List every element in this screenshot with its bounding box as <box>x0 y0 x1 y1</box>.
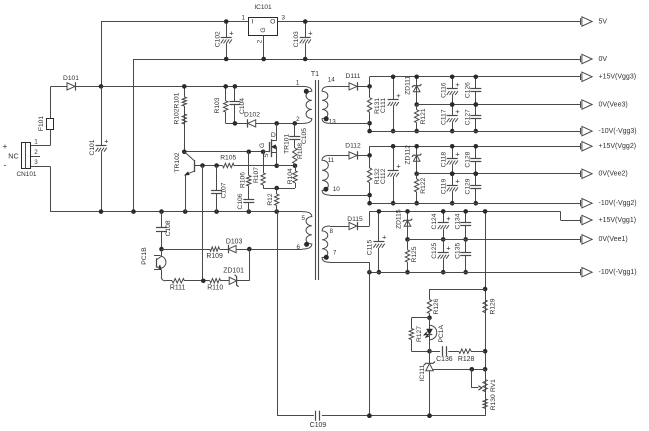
svg-text:5: 5 <box>301 215 305 222</box>
svg-text:0V(Vee2): 0V(Vee2) <box>599 171 628 178</box>
svg-text:+: + <box>396 162 401 171</box>
svg-text:0V(Vee3): 0V(Vee3) <box>599 101 628 108</box>
svg-text:R110: R110 <box>207 285 223 292</box>
svg-text:2: 2 <box>296 116 300 123</box>
svg-text:G: G <box>260 27 267 32</box>
svg-text:G: G <box>259 143 266 148</box>
svg-text:+: + <box>382 233 387 242</box>
svg-text:-10V(-Vgg3): -10V(-Vgg3) <box>599 128 637 135</box>
svg-text:RV1: RV1 <box>490 379 497 392</box>
svg-text:+: + <box>3 142 8 151</box>
svg-text:D103: D103 <box>226 239 243 246</box>
svg-text:5V: 5V <box>599 18 608 25</box>
svg-text:F101: F101 <box>38 116 45 132</box>
svg-text:8: 8 <box>329 228 333 235</box>
svg-text:CN101: CN101 <box>17 171 37 178</box>
svg-text:R125: R125 <box>411 246 418 262</box>
svg-text:+: + <box>455 107 460 116</box>
svg-text:C116: C116 <box>441 82 448 98</box>
svg-text:1: 1 <box>242 15 246 22</box>
svg-text:-10V(-Vgg2): -10V(-Vgg2) <box>599 200 637 207</box>
svg-text:R108: R108 <box>297 143 304 159</box>
svg-text:2: 2 <box>257 39 264 43</box>
svg-text:PC1B: PC1B <box>141 247 148 265</box>
svg-text:+: + <box>308 28 313 37</box>
svg-text:R103: R103 <box>214 97 221 113</box>
svg-text:ZD101: ZD101 <box>223 268 244 275</box>
svg-text:TR102: TR102 <box>174 152 181 172</box>
svg-text:C115: C115 <box>366 239 373 255</box>
svg-text:C119: C119 <box>441 178 448 194</box>
svg-text:R121: R121 <box>420 108 427 124</box>
svg-text:R122: R122 <box>420 177 427 193</box>
svg-text:R104: R104 <box>287 168 294 184</box>
svg-text:10: 10 <box>333 186 341 193</box>
svg-text:C125: C125 <box>431 243 438 259</box>
svg-text:+: + <box>446 214 451 223</box>
svg-text:ZD112: ZD112 <box>405 145 412 165</box>
svg-text:D111: D111 <box>346 73 361 80</box>
svg-text:T1: T1 <box>311 71 319 78</box>
svg-text:C102: C102 <box>214 31 221 47</box>
svg-text:1: 1 <box>296 80 300 87</box>
svg-text:C117: C117 <box>441 109 448 125</box>
svg-text:ZD111: ZD111 <box>405 75 412 94</box>
svg-text:1: 1 <box>34 139 38 146</box>
svg-text:R127: R127 <box>416 326 423 342</box>
svg-text:R12: R12 <box>267 193 274 206</box>
svg-text:0V: 0V <box>599 56 608 63</box>
svg-text:+: + <box>455 80 460 89</box>
svg-text:R128: R128 <box>458 356 475 363</box>
svg-text:C134: C134 <box>455 213 462 229</box>
svg-text:C101: C101 <box>89 139 96 155</box>
svg-text:D101: D101 <box>63 75 79 82</box>
svg-text:C105: C105 <box>301 128 308 144</box>
svg-text:R106: R106 <box>240 172 247 188</box>
svg-text:R111: R111 <box>170 285 186 292</box>
svg-text:3: 3 <box>281 15 285 22</box>
svg-text:+: + <box>455 149 460 158</box>
svg-text:+: + <box>104 137 109 146</box>
svg-text:11: 11 <box>328 157 335 164</box>
svg-text:+: + <box>229 28 234 37</box>
svg-text:0V(Vee1): 0V(Vee1) <box>599 236 628 243</box>
svg-text:C136: C136 <box>436 356 453 363</box>
svg-text:O: O <box>270 19 275 26</box>
svg-text:2: 2 <box>34 149 38 156</box>
svg-text:3: 3 <box>34 159 38 166</box>
svg-text:R126: R126 <box>433 298 440 314</box>
svg-text:C107: C107 <box>220 182 227 198</box>
svg-text:D102: D102 <box>244 112 260 119</box>
svg-text:D: D <box>271 132 276 139</box>
svg-text:C129: C129 <box>464 178 471 194</box>
svg-text:D115: D115 <box>347 216 363 223</box>
svg-text:+: + <box>446 244 451 253</box>
svg-text:C106: C106 <box>237 193 244 209</box>
svg-text:R105: R105 <box>220 155 236 162</box>
svg-text:C118: C118 <box>441 152 448 168</box>
svg-text:D112: D112 <box>345 143 361 150</box>
svg-text:C128: C128 <box>464 151 471 167</box>
svg-text:C127: C127 <box>464 109 471 125</box>
svg-text:R109: R109 <box>206 253 223 260</box>
svg-text:IC101: IC101 <box>254 4 272 11</box>
svg-text:C109: C109 <box>310 422 327 429</box>
svg-text:C126: C126 <box>464 82 471 98</box>
svg-text:+15V(Vgg3): +15V(Vgg3) <box>599 74 637 81</box>
svg-text:ZD115: ZD115 <box>395 209 402 229</box>
svg-text:7: 7 <box>333 250 337 257</box>
svg-text:+15V(Vgg2): +15V(Vgg2) <box>599 143 637 150</box>
svg-text:S: S <box>263 154 270 158</box>
svg-text:C124: C124 <box>431 213 438 229</box>
svg-text:+15V(Vgg1): +15V(Vgg1) <box>599 217 637 224</box>
svg-text:C112: C112 <box>380 168 387 184</box>
svg-text:6: 6 <box>297 244 301 251</box>
svg-text:C103: C103 <box>293 31 300 47</box>
svg-text:13: 13 <box>329 119 337 126</box>
svg-text:R102R101: R102R101 <box>174 92 181 124</box>
svg-text:R129: R129 <box>489 298 496 314</box>
svg-text:C135: C135 <box>455 243 462 259</box>
svg-text:C108: C108 <box>165 220 172 236</box>
svg-text:R130: R130 <box>490 394 497 410</box>
svg-text:14: 14 <box>328 77 336 84</box>
svg-text:+: + <box>455 176 460 185</box>
svg-text:-10V(-Vgg1): -10V(-Vgg1) <box>599 269 637 276</box>
svg-text:C111: C111 <box>380 98 387 113</box>
svg-text:PC1A: PC1A <box>438 325 445 343</box>
svg-text:I: I <box>251 19 253 26</box>
svg-text:-: - <box>4 160 7 170</box>
svg-text:NC: NC <box>8 152 18 161</box>
svg-text:IC111: IC111 <box>419 364 426 381</box>
svg-text:R107: R107 <box>253 167 260 183</box>
svg-text:+: + <box>396 91 401 100</box>
